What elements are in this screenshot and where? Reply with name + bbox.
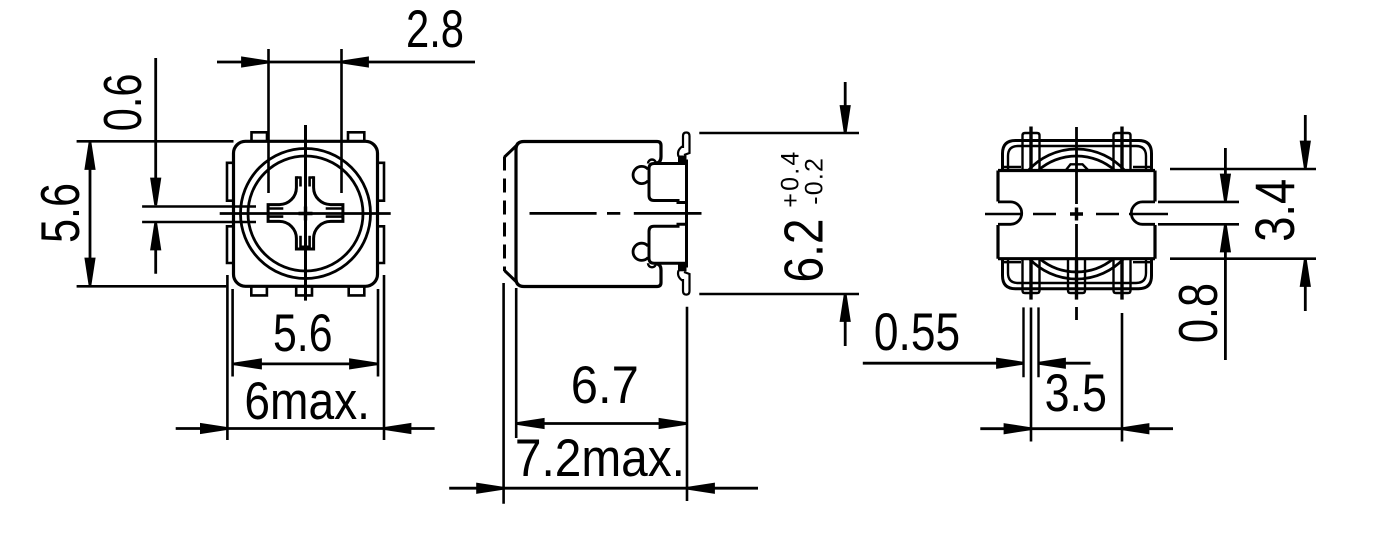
- svg-text:6max.: 6max.: [244, 372, 370, 431]
- svg-text:2.8: 2.8: [406, 0, 464, 59]
- svg-text:3.4: 3.4: [1243, 179, 1306, 242]
- svg-text:7.2max.: 7.2max.: [515, 429, 685, 488]
- svg-text:5.6: 5.6: [273, 304, 333, 363]
- svg-text:6.2: 6.2: [772, 219, 834, 283]
- svg-text:0.8: 0.8: [1167, 283, 1229, 343]
- svg-text:-0.2: -0.2: [800, 157, 828, 205]
- svg-text:0.6: 0.6: [93, 74, 153, 132]
- svg-text:0.55: 0.55: [874, 303, 960, 362]
- svg-text:5.6: 5.6: [29, 183, 91, 243]
- svg-text:6.7: 6.7: [571, 356, 639, 415]
- svg-text:3.5: 3.5: [1045, 364, 1107, 423]
